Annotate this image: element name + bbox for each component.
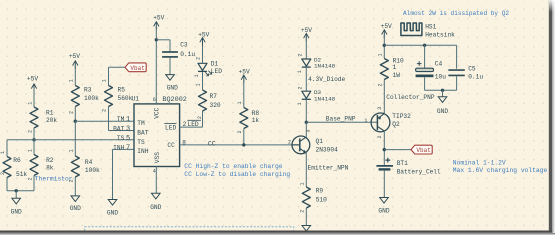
svg-text:2: 2 xyxy=(0,172,6,175)
wire CC net xyxy=(180,139,300,146)
svg-text:TS: TS xyxy=(137,139,145,146)
svg-text:2: 2 xyxy=(377,135,383,138)
node GND junction dot xyxy=(441,89,444,92)
svg-text:BQ2002: BQ2002 xyxy=(162,96,186,104)
svg-text:Heatsink: Heatsink xyxy=(425,32,455,39)
node bottom junction dot xyxy=(15,189,18,192)
svg-text:R8: R8 xyxy=(252,110,260,117)
svg-text:LED: LED xyxy=(188,121,199,128)
svg-text:GND: GND xyxy=(150,204,161,211)
wire Q1 emitter to R9 xyxy=(305,153,307,187)
svg-text:7: 7 xyxy=(126,144,130,152)
svg-text:Base_PNP: Base_PNP xyxy=(326,116,356,123)
wire R6-R2 bottom xyxy=(7,190,34,192)
selection box (dashed) xyxy=(85,227,294,231)
svg-text:1: 1 xyxy=(237,101,243,104)
svg-text:R1: R1 xyxy=(46,110,54,117)
ground (thermistor net) xyxy=(11,198,22,215)
svg-text:R5: R5 xyxy=(118,87,126,94)
LED D1 xyxy=(194,57,222,78)
resistor R9 xyxy=(299,182,327,212)
resistor R6 xyxy=(0,151,27,178)
svg-text:+5V: +5V xyxy=(27,76,38,83)
svg-text:3: 3 xyxy=(377,107,383,110)
wire C5 bottom lead xyxy=(456,76,458,90)
svg-text:560k: 560k xyxy=(118,95,133,102)
svg-text:TM: TM xyxy=(137,120,145,127)
svg-text:Q1: Q1 xyxy=(316,138,324,145)
svg-text:+5V: +5V xyxy=(69,53,80,60)
svg-text:2: 2 xyxy=(183,121,187,128)
svg-text:1: 1 xyxy=(297,102,303,105)
wire VSS to ground xyxy=(155,167,157,194)
svg-text:Q2: Q2 xyxy=(392,121,400,128)
svg-text:1: 1 xyxy=(377,53,383,56)
svg-text:INH: INH xyxy=(137,148,148,155)
svg-text:1: 1 xyxy=(299,182,305,185)
svg-text:3: 3 xyxy=(126,126,130,134)
svg-text:Max 1.6V charging voltage: Max 1.6V charging voltage xyxy=(453,167,548,174)
node CC/R8 junction dot xyxy=(242,143,245,146)
wire R2 bottom lead xyxy=(33,176,35,191)
wire R1 bottom to TS node xyxy=(33,128,35,140)
svg-text:0.1u: 0.1u xyxy=(468,73,483,80)
power +5V (R1 top) xyxy=(27,76,38,92)
label Collector_PNP xyxy=(386,94,435,101)
pin 2 LED wire xyxy=(180,111,203,128)
svg-text:4.3V_Diode: 4.3V_Diode xyxy=(308,76,345,83)
comment battery voltage line 2 xyxy=(453,167,548,174)
svg-text:5: 5 xyxy=(126,135,130,143)
svg-text:Collector_PNP: Collector_PNP xyxy=(386,94,435,101)
wire battery to ground xyxy=(383,170,385,197)
svg-text:Almost 2W is dissipated by Q2: Almost 2W is dissipated by Q2 xyxy=(403,10,509,17)
svg-text:Battery_Cell: Battery_Cell xyxy=(397,168,441,175)
label Emitter_NPN xyxy=(308,165,349,172)
svg-text:1N4148: 1N4148 xyxy=(314,62,336,69)
svg-text:2: 2 xyxy=(102,109,108,112)
svg-text:2: 2 xyxy=(237,130,243,133)
power flag Vbat (right) xyxy=(411,145,432,154)
svg-text:CC High-Z to enable charge: CC High-Z to enable charge xyxy=(184,163,282,170)
svg-text:BT1: BT1 xyxy=(397,160,408,167)
wire Base_PNP net xyxy=(306,121,377,123)
wire TS net horizontal xyxy=(7,139,134,141)
svg-text:8: 8 xyxy=(182,139,186,146)
svg-text:1: 1 xyxy=(297,70,303,73)
svg-text:1: 1 xyxy=(126,116,130,124)
svg-text:Thermistor: Thermistor xyxy=(35,176,73,183)
wire Q1 collector xyxy=(305,122,307,137)
wire R4 bottom lead xyxy=(74,177,76,196)
svg-text:Vbat: Vbat xyxy=(130,65,144,72)
svg-text:51k: 51k xyxy=(16,171,27,178)
svg-text:2: 2 xyxy=(288,139,291,145)
label 4.3V_Diode xyxy=(308,76,345,83)
wire +5V to D2 xyxy=(305,38,307,59)
svg-text:1: 1 xyxy=(364,118,367,124)
svg-text:10u: 10u xyxy=(435,73,446,80)
node TM junction dot xyxy=(74,120,77,123)
wire +5V to R8 xyxy=(243,79,245,107)
svg-text:2: 2 xyxy=(69,179,75,182)
wire TM net to U1 xyxy=(75,120,134,122)
wire C4 bottom lead xyxy=(424,77,426,90)
wire R6 bottom lead xyxy=(6,178,8,191)
svg-text:INH: INH xyxy=(113,144,124,151)
battery BT1 xyxy=(376,158,441,176)
comment CC behaviour line 2 xyxy=(184,171,290,178)
svg-text:TIP32: TIP32 xyxy=(392,113,411,120)
svg-text:+5V: +5V xyxy=(153,14,164,21)
svg-text:1N4148: 1N4148 xyxy=(314,95,336,102)
wire +5V to R10 xyxy=(383,34,385,59)
label INH, pin 7 xyxy=(113,144,130,152)
svg-text:R3: R3 xyxy=(84,87,92,94)
svg-text:1: 1 xyxy=(102,79,108,82)
wire D1 to R7 xyxy=(202,71,204,90)
svg-text:R6: R6 xyxy=(13,157,21,164)
svg-text:2: 2 xyxy=(196,57,202,60)
wire VCC rail xyxy=(155,26,157,104)
label Thermistor xyxy=(35,176,73,183)
heatsink HS1 xyxy=(401,23,455,39)
label BAT, pin 3 xyxy=(113,126,130,134)
wire R9 to ground xyxy=(305,208,307,226)
svg-text:GND: GND xyxy=(167,84,178,91)
svg-text:Vbat: Vbat xyxy=(416,147,430,154)
power +5V (R3 top) xyxy=(69,53,80,69)
node VCC/C3 junction dot xyxy=(155,38,158,41)
svg-text:VSS: VSS xyxy=(154,152,161,163)
svg-text:TS: TS xyxy=(117,135,125,142)
power +5V (R8) xyxy=(239,69,250,84)
ground (C4/C5) xyxy=(437,97,448,115)
wire +5V to R3 xyxy=(74,65,76,86)
svg-text:LED: LED xyxy=(211,68,222,75)
svg-text:Emitter_NPN: Emitter_NPN xyxy=(308,165,349,172)
wire C3 bottom lead xyxy=(169,58,171,75)
label CC (net) xyxy=(208,140,216,147)
ground (C3) xyxy=(166,75,178,92)
svg-text:R7: R7 xyxy=(210,93,218,100)
resistor R5 xyxy=(102,79,133,112)
ground (VSS) xyxy=(150,193,161,211)
svg-text:320: 320 xyxy=(210,102,221,109)
svg-text:1: 1 xyxy=(69,79,75,82)
svg-text:4: 4 xyxy=(153,169,156,175)
wire Q2 collector down xyxy=(383,131,385,165)
node C4 junction dot xyxy=(423,44,426,47)
wire Vbat to R5 xyxy=(109,67,126,85)
comment battery voltage line 1 xyxy=(453,159,506,166)
svg-text:100k: 100k xyxy=(85,167,100,174)
svg-text:+5V: +5V xyxy=(239,69,250,76)
svg-text:2N3904: 2N3904 xyxy=(316,146,339,153)
svg-text:GND: GND xyxy=(107,209,118,216)
svg-text:+5V: +5V xyxy=(381,23,392,30)
svg-text:8k: 8k xyxy=(46,165,54,172)
resistor R4 xyxy=(69,149,101,182)
comment CC behaviour line 1 xyxy=(184,163,282,170)
svg-text:2: 2 xyxy=(299,210,305,213)
svg-text:R9: R9 xyxy=(316,188,324,195)
diode D3 xyxy=(297,86,336,105)
wire C4 top lead xyxy=(424,45,426,68)
svg-text:1: 1 xyxy=(27,149,33,152)
capacitor C5 xyxy=(448,66,483,81)
diode D2 xyxy=(297,53,336,73)
wire R5 bottom to BAT net xyxy=(108,107,110,131)
resistor R7 xyxy=(196,83,221,119)
wire R6 top lead xyxy=(6,140,8,157)
svg-text:+5V: +5V xyxy=(301,27,312,34)
power +5V (Q2 rail) xyxy=(381,23,392,38)
power +5V (D2) xyxy=(301,27,312,42)
svg-text:CC Low-Z to disable charging: CC Low-Z to disable charging xyxy=(184,171,290,178)
svg-text:2: 2 xyxy=(377,83,383,86)
svg-text:20k: 20k xyxy=(46,117,57,124)
ground (INH) xyxy=(107,200,118,217)
wire to Vbat tag xyxy=(384,149,411,151)
svg-text:2: 2 xyxy=(27,130,33,133)
svg-text:C5: C5 xyxy=(468,66,476,73)
wire INH net xyxy=(113,149,135,199)
svg-text:D1: D1 xyxy=(211,61,219,68)
resistor R8 xyxy=(237,101,259,133)
svg-text:HS1: HS1 xyxy=(425,23,436,30)
label TS, pin 5 xyxy=(117,135,130,143)
svg-text:TM: TM xyxy=(117,116,125,123)
ground (R9) xyxy=(302,226,311,232)
ground (R4) xyxy=(70,196,81,212)
svg-text:C4: C4 xyxy=(435,60,443,67)
svg-text:VCC: VCC xyxy=(154,107,161,118)
label TM, pin 1 xyxy=(117,116,130,124)
node Vbat junction dot xyxy=(383,148,386,151)
wire C4-C5 bottom xyxy=(425,89,457,91)
svg-text:Nominal 1-1.2V: Nominal 1-1.2V xyxy=(453,159,506,166)
svg-text:GND: GND xyxy=(437,108,448,115)
resistor R3 xyxy=(69,79,100,114)
svg-text:1W: 1W xyxy=(393,72,401,79)
wire C5 top lead xyxy=(456,45,458,68)
svg-text:1: 1 xyxy=(0,151,6,154)
svg-text:GND: GND xyxy=(70,205,81,212)
svg-text:R4: R4 xyxy=(85,159,93,166)
wire +5V to R1 xyxy=(33,88,35,107)
IC U1 BQ2002 charge controller xyxy=(132,96,187,175)
svg-text:2: 2 xyxy=(69,111,75,114)
svg-text:2: 2 xyxy=(297,53,303,56)
label LED (net) xyxy=(187,120,201,128)
wire TM node to R4 xyxy=(74,121,76,156)
wire R2 top lead xyxy=(33,140,35,155)
svg-text:BAT: BAT xyxy=(137,129,148,136)
power +5V (VCC) xyxy=(153,14,164,29)
svg-text:GND: GND xyxy=(378,207,389,214)
svg-text:R2: R2 xyxy=(46,157,54,164)
svg-text:+5V: +5V xyxy=(198,32,209,39)
svg-text:1: 1 xyxy=(196,83,202,86)
svg-text:510: 510 xyxy=(316,197,327,204)
svg-text:1k: 1k xyxy=(252,117,260,124)
svg-text:U1: U1 xyxy=(132,96,140,103)
power +5V (D1) xyxy=(198,32,209,46)
resistor R2 xyxy=(27,149,54,180)
capacitor C4 (polarized) xyxy=(416,60,447,80)
node +5V rail junction dot xyxy=(383,44,386,47)
svg-text:1: 1 xyxy=(27,102,33,105)
wire C3 branch xyxy=(156,40,170,51)
svg-text:6: 6 xyxy=(153,97,156,103)
wire Q2 emitter up xyxy=(383,80,385,114)
wire D2 to D3 xyxy=(305,67,307,91)
wire BAT net to U1 xyxy=(109,130,135,132)
wire R3 bottom to TM node xyxy=(74,107,76,122)
comment dissipation note xyxy=(403,10,509,17)
capacitor C3 xyxy=(162,41,195,58)
svg-text:GND: GND xyxy=(11,208,22,215)
node base clamp junction dot xyxy=(305,121,308,124)
wire GND stub (C4/C5) xyxy=(442,90,444,97)
svg-text:1: 1 xyxy=(69,149,75,152)
svg-text:0.1u: 0.1u xyxy=(180,51,195,58)
svg-text:LED: LED xyxy=(165,124,176,131)
svg-text:CC: CC xyxy=(167,142,175,149)
transistor Q1 2N3904 xyxy=(288,129,338,153)
svg-text:CC: CC xyxy=(208,140,216,147)
resistor R10 xyxy=(377,53,404,86)
resistor R1 xyxy=(27,102,57,133)
wire R8 to CC net xyxy=(243,129,245,145)
svg-text:100k: 100k xyxy=(84,95,99,102)
svg-text:C3: C3 xyxy=(180,41,188,48)
svg-text:1: 1 xyxy=(393,64,397,71)
ground (BT1) xyxy=(378,198,389,215)
svg-text:2: 2 xyxy=(27,177,33,180)
wire D3 to base node xyxy=(305,99,307,122)
svg-text:2: 2 xyxy=(297,86,303,89)
power flag Vbat (left) xyxy=(125,63,146,72)
node TS junction dot xyxy=(32,138,35,141)
transistor Q2 TIP32 xyxy=(371,107,411,139)
svg-text:2: 2 xyxy=(197,116,203,119)
wire +5V top rail xyxy=(384,44,456,46)
label Base_PNP xyxy=(326,116,368,124)
svg-text:1: 1 xyxy=(194,74,200,77)
wire +5V to D1 xyxy=(202,42,204,63)
wire GND stub xyxy=(15,191,17,199)
svg-text:BAT: BAT xyxy=(113,126,124,133)
